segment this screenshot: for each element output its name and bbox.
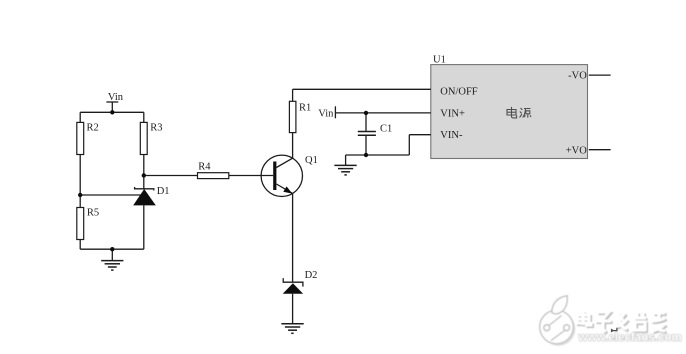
svg-text:Vin: Vin bbox=[108, 92, 124, 103]
svg-text:Q1: Q1 bbox=[305, 155, 318, 166]
svg-text:C1: C1 bbox=[380, 124, 392, 135]
svg-text:R5: R5 bbox=[87, 208, 99, 219]
svg-text:www.elecfans.com: www.elecfans.com bbox=[578, 331, 682, 344]
svg-text:U1: U1 bbox=[433, 55, 446, 66]
svg-text:VIN+: VIN+ bbox=[440, 108, 465, 119]
svg-text:R2: R2 bbox=[87, 123, 99, 134]
svg-text:Vin: Vin bbox=[318, 108, 334, 119]
svg-text:+VO: +VO bbox=[566, 146, 588, 157]
svg-text:R4: R4 bbox=[198, 162, 211, 173]
svg-text:ON/OFF: ON/OFF bbox=[440, 87, 478, 98]
svg-text:VIN-: VIN- bbox=[440, 130, 463, 141]
svg-text:R3: R3 bbox=[150, 123, 162, 134]
svg-text:-VO: -VO bbox=[568, 71, 587, 82]
svg-text:R1: R1 bbox=[299, 103, 311, 114]
svg-text:D2: D2 bbox=[305, 270, 318, 281]
svg-text:D1: D1 bbox=[157, 186, 170, 197]
